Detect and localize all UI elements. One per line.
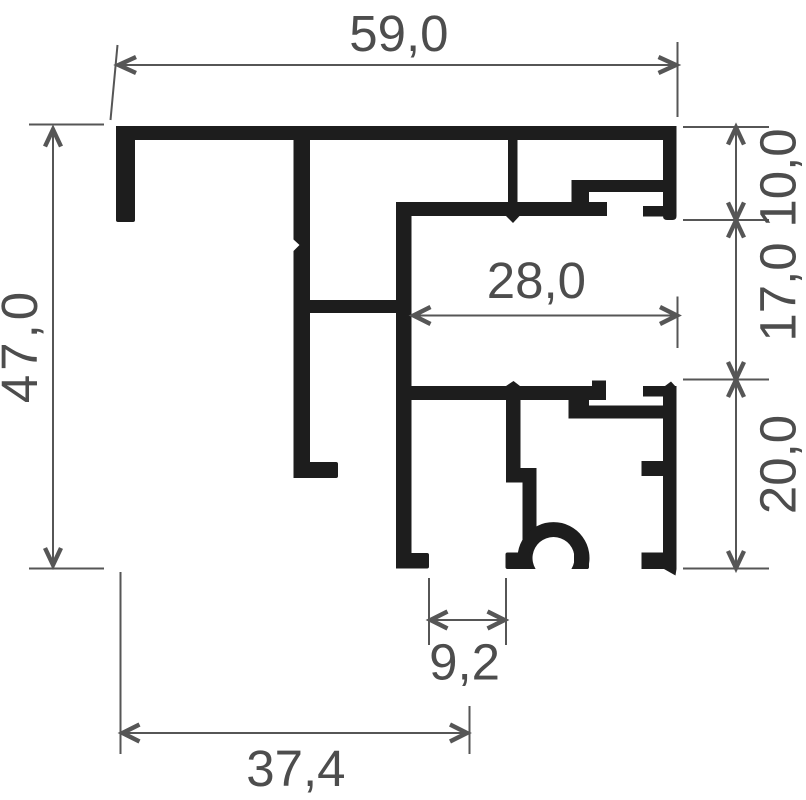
screw-port wall B (523, 468, 537, 545)
arrow 47,0 down (45, 548, 61, 565)
svg-text:17,0: 17,0 (750, 242, 806, 341)
svg-text:28,0: 28,0 (487, 252, 586, 309)
screw-port wall A (506, 400, 521, 482)
right chain tick 3 (683, 379, 769, 381)
bar2 (lower internal web) (396, 386, 606, 400)
arrow 37,4 right (450, 725, 467, 742)
arrow 47,0 up (45, 130, 61, 147)
arrow 9,2 left (431, 612, 448, 629)
shelf upper (589, 180, 663, 192)
sub-wall notch (white) (294, 240, 300, 252)
arch right foot (574, 553, 589, 570)
arrow 28,0 left (414, 307, 431, 324)
arrow 59,0 right (659, 57, 677, 73)
svg-text:59,0: 59,0 (349, 5, 448, 62)
svg-text:10,0: 10,0 (750, 128, 806, 227)
dim 37,4 right extension line (469, 706, 471, 754)
arrow 28,0 right (660, 307, 677, 324)
arrow X at 379.5 (up) (728, 380, 744, 397)
screw-port arch (518, 522, 590, 569)
right wall upper (663, 126, 677, 220)
top flange (116, 126, 676, 140)
bar2 lip (592, 381, 606, 395)
dim 9,2 left extension line (428, 578, 430, 645)
arrow chain bottom down (728, 551, 744, 568)
right chain vertical line (735, 127, 737, 569)
dim 37,4 line (122, 732, 468, 734)
divider tip (506, 216, 520, 223)
divider wall (508, 140, 518, 216)
arrow chain top up (728, 128, 744, 145)
shelf lower (589, 406, 663, 419)
sub-wall foot (294, 462, 339, 478)
svg-text:9,2: 9,2 (429, 634, 500, 691)
arch left foot (506, 553, 532, 570)
slot notch upper (643, 206, 663, 217)
arrow 37,4 left (123, 725, 140, 742)
arrow 9,2 right (488, 612, 505, 629)
right wall lower (663, 386, 677, 569)
step upper (572, 180, 590, 216)
dim 59,0 right extension line (677, 42, 679, 117)
left leg (116, 126, 135, 222)
right wall lower top tip (663, 382, 677, 388)
right chain tick 2 (683, 219, 769, 221)
step lower (569, 396, 590, 419)
right wall bottom foot (642, 553, 677, 570)
arrow X at 379.5 (down) (728, 362, 744, 379)
main wall (396, 202, 412, 569)
dim 47,0 bottom tick (29, 568, 104, 570)
svg-text:47,0: 47,0 (0, 288, 48, 403)
bar1 (upper internal web) (396, 202, 607, 216)
bar2 bump (divider axis tip up) (506, 381, 520, 386)
dim 47,0 top tick (29, 124, 104, 126)
screw-port step (506, 468, 537, 483)
dim 9,2 line (430, 619, 505, 621)
svg-text:37,4: 37,4 (246, 740, 345, 797)
right chain tick bottom (683, 568, 769, 570)
svg-text:20,0: 20,0 (750, 415, 806, 514)
dim 28,0 line (413, 315, 678, 317)
dim 37,4 left extension line (120, 572, 122, 754)
dim 28,0 right extension line (677, 297, 679, 349)
left sub-wall (294, 140, 311, 478)
right wall bottom tip (664, 569, 677, 576)
right chain tick top (683, 126, 769, 128)
main wall foot (396, 553, 429, 569)
right wall mid tab (642, 461, 664, 476)
arrow X at 220 (down) (728, 203, 744, 220)
dim 59,0 line (118, 64, 677, 66)
arrow 59,0 left (119, 57, 137, 73)
mid bar (294, 300, 412, 313)
tab at lower wall top (643, 386, 663, 397)
arrow X at 220 (up) (728, 221, 744, 238)
dim 59,0 left extension line (111, 45, 118, 120)
dim 9,2 right extension line (505, 578, 507, 645)
dim 47,0 vertical line (52, 129, 54, 566)
